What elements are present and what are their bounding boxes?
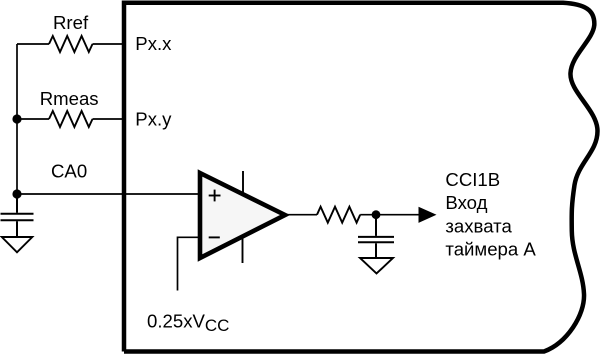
label CCI1B / timer capture input text block — [445, 169, 536, 260]
junction dot at Rmeas / rail — [12, 114, 21, 123]
resistor Rmeas — [49, 111, 93, 127]
svg-text:Rmeas: Rmeas — [40, 88, 99, 109]
op-amp plus symbol — [209, 190, 221, 202]
wire: left rail vertical — [16, 44, 18, 194]
ground (left) — [2, 237, 33, 252]
junction dot at filter node — [372, 210, 381, 219]
wire CA0 net from rail to comparator + input — [17, 193, 200, 195]
op-amp negative supply pin — [242, 237, 244, 263]
resistor (output filter) — [317, 207, 360, 223]
capacitor C1 (left) — [1, 194, 34, 237]
svg-text:Px.y: Px.y — [135, 109, 172, 130]
MCU boundary box U1 (torn right edge) — [124, 3, 598, 352]
capacitor C2 (filter) — [358, 215, 394, 258]
wire: comparator output — [285, 214, 317, 216]
wire: inverting input to 0.25xVcc stub — [178, 237, 201, 290]
svg-text:0.25xVCC: 0.25xVCC — [147, 311, 229, 335]
svg-text:таймера А: таймера А — [445, 239, 536, 260]
resistor Rref — [49, 36, 93, 52]
svg-text:Rref: Rref — [53, 12, 89, 33]
svg-text:Вход: Вход — [445, 192, 487, 213]
wire: resistor to arrow — [360, 214, 418, 216]
wire: Rref left segment — [17, 43, 49, 45]
op-amp positive supply pin — [242, 171, 244, 194]
wire: Rmeas left segment — [17, 118, 49, 120]
wire: Rref to pin Px.x — [93, 43, 125, 45]
signal arrow to CCI1B — [419, 207, 437, 223]
op-amp minus symbol — [209, 236, 220, 238]
ground (right) — [360, 258, 393, 274]
svg-text:CCI1B: CCI1B — [445, 169, 500, 190]
op-amp comparator CA0 triangle — [200, 173, 285, 258]
svg-text:захвата: захвата — [445, 215, 512, 236]
svg-text:CA0: CA0 — [51, 160, 87, 181]
svg-text:Px.x: Px.x — [135, 33, 172, 54]
wire: Rmeas to pin Px.y — [93, 118, 125, 120]
junction dot at CA0 / rail / capacitor — [12, 189, 21, 198]
